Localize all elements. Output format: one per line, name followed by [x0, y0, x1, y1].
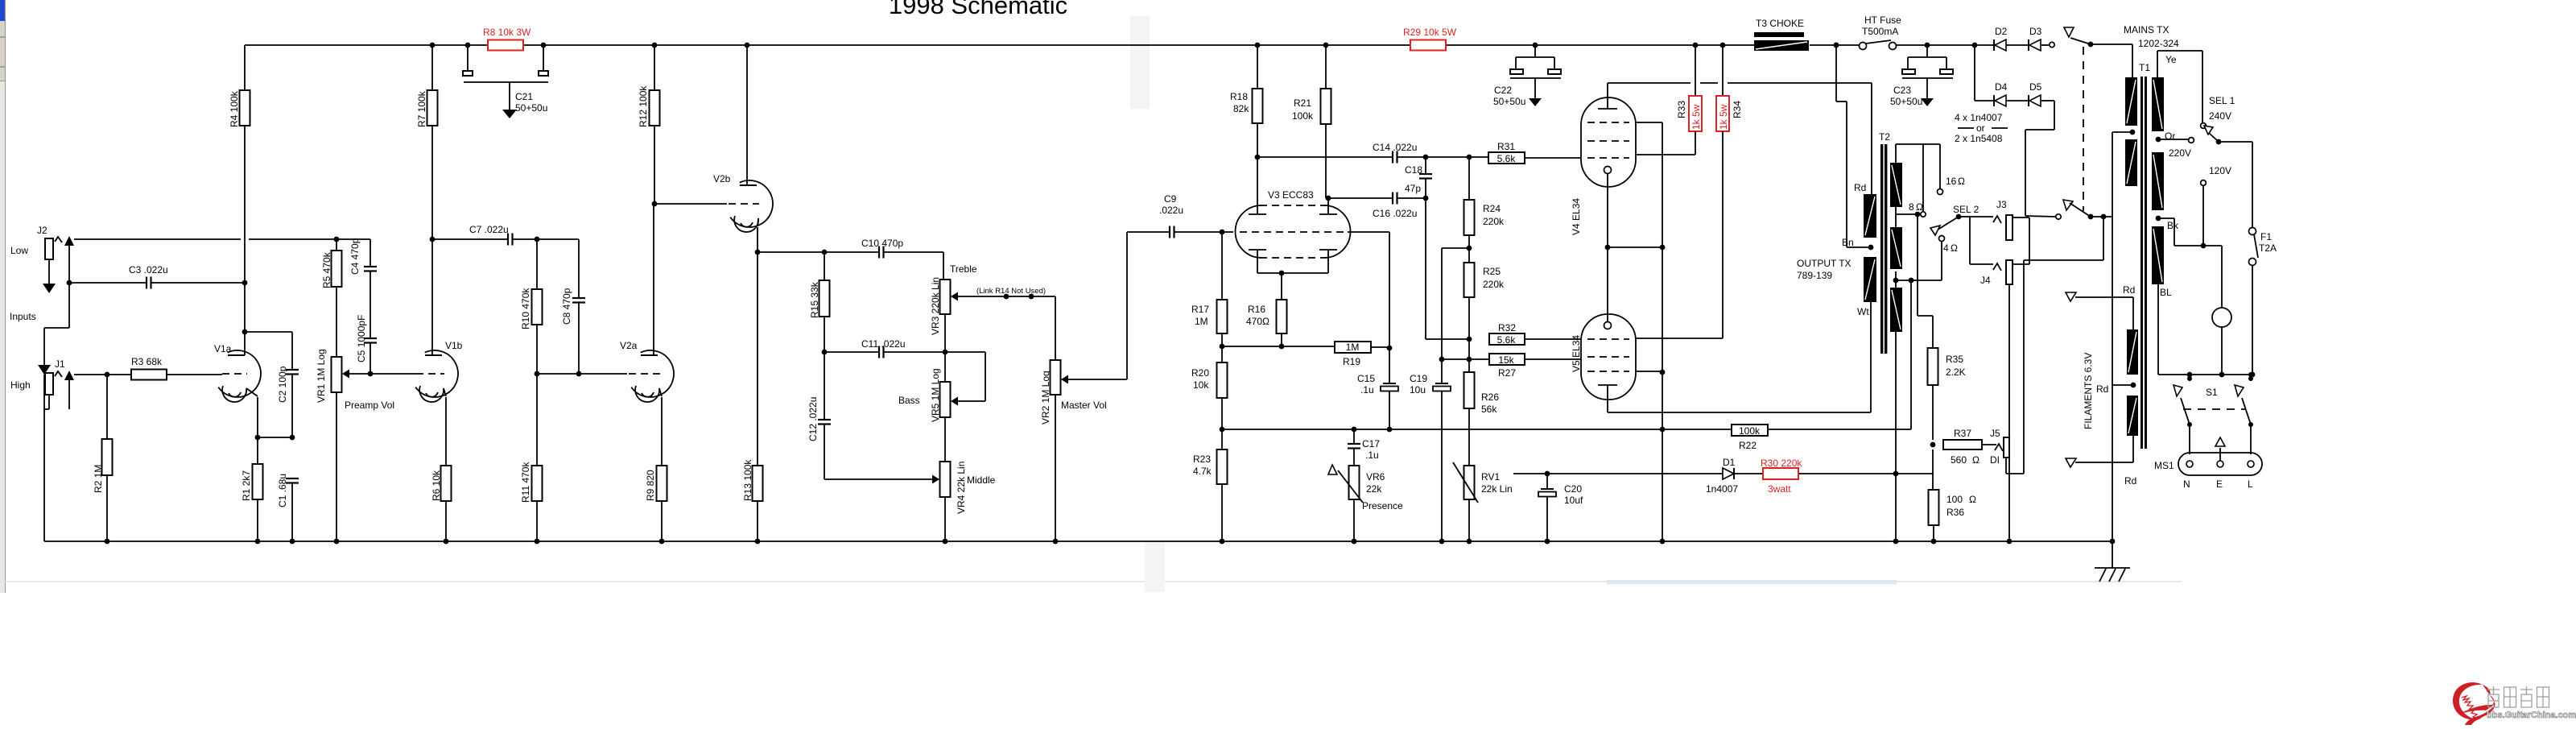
svg-text:C10 470p: C10 470p — [861, 238, 903, 249]
svg-text:V2a: V2a — [620, 340, 638, 351]
svg-text:FILAMENTS 6.3V: FILAMENTS 6.3V — [2083, 353, 2094, 429]
svg-text:C14 .022u: C14 .022u — [1373, 142, 1417, 153]
svg-text:R37: R37 — [1954, 428, 1971, 439]
svg-text:R34: R34 — [1732, 101, 1743, 118]
svg-text:VR2 1M Log: VR2 1M Log — [1040, 371, 1051, 425]
svg-text:Rd: Rd — [1854, 182, 1866, 193]
svg-text:1n4007: 1n4007 — [1706, 483, 1738, 495]
svg-text:C22: C22 — [1494, 85, 1512, 96]
svg-text:HT Fuse: HT Fuse — [1864, 14, 1901, 26]
svg-text:1k 5w: 1k 5w — [1718, 104, 1729, 130]
svg-text:D4: D4 — [1995, 81, 2008, 93]
svg-text:R25: R25 — [1483, 266, 1501, 277]
svg-text:F1: F1 — [2260, 231, 2272, 242]
svg-text:1202-324: 1202-324 — [2138, 38, 2179, 49]
svg-text:50+50u: 50+50u — [1493, 96, 1525, 107]
svg-text:560: 560 — [1951, 454, 1967, 466]
svg-text:47p: 47p — [1405, 183, 1421, 194]
svg-text:3watt: 3watt — [1768, 483, 1791, 495]
svg-text:R30 220k: R30 220k — [1761, 458, 1802, 469]
svg-text:VR3 220k Lin: VR3 220k Lin — [930, 277, 941, 335]
svg-text:R2 1M: R2 1M — [93, 465, 104, 493]
svg-text:Ye: Ye — [2165, 54, 2177, 65]
svg-text:22k: 22k — [1366, 483, 1382, 495]
svg-text:R26: R26 — [1481, 391, 1499, 403]
svg-text:SEL 1: SEL 1 — [2209, 95, 2235, 106]
svg-text:R16: R16 — [1248, 304, 1265, 315]
svg-text:J4: J4 — [1980, 275, 1991, 286]
svg-text:R13 100k: R13 100k — [742, 459, 753, 501]
svg-text:240V: 240V — [2209, 110, 2231, 122]
svg-text:C21: C21 — [515, 91, 533, 102]
svg-text:bbs.GuitarChina.com: bbs.GuitarChina.com — [2487, 710, 2576, 720]
svg-text:(Link R14 Not Used): (Link R14 Not Used) — [976, 287, 1046, 296]
svg-text:R22: R22 — [1739, 440, 1757, 451]
svg-text:4: 4 — [1943, 242, 1949, 254]
svg-text:R7 100k: R7 100k — [416, 90, 427, 127]
svg-text:RV1: RV1 — [1481, 471, 1500, 483]
svg-text:.1u: .1u — [1365, 449, 1379, 461]
svg-text:R4 100k: R4 100k — [229, 90, 240, 127]
svg-text:D2: D2 — [1995, 26, 2008, 37]
svg-text:Bk: Bk — [2167, 220, 2179, 231]
svg-text:E: E — [2216, 478, 2223, 490]
svg-text:R5 470k: R5 470k — [321, 251, 332, 288]
svg-text:Ω: Ω — [1969, 494, 1976, 505]
svg-text:R10 470k: R10 470k — [520, 288, 531, 329]
svg-text:Wt: Wt — [1857, 306, 1869, 317]
svg-text:R20: R20 — [1191, 367, 1209, 379]
svg-text:T2A: T2A — [2259, 242, 2277, 254]
svg-text:220k: 220k — [1483, 216, 1505, 227]
svg-text:VR5 1M Log: VR5 1M Log — [930, 368, 941, 422]
svg-text:C3 .022u: C3 .022u — [129, 264, 168, 275]
svg-text:100: 100 — [1946, 494, 1963, 505]
svg-text:15k: 15k — [1498, 354, 1514, 366]
svg-text:T500mA: T500mA — [1862, 26, 1898, 37]
svg-text:R27: R27 — [1498, 367, 1516, 379]
svg-text:220k: 220k — [1483, 279, 1505, 290]
svg-text:SEL 2: SEL 2 — [1953, 204, 1979, 215]
svg-text:Bn: Bn — [1842, 237, 1854, 248]
svg-text:DI: DI — [1990, 454, 2000, 466]
svg-text:R19: R19 — [1343, 356, 1360, 367]
svg-text:V2b: V2b — [713, 173, 731, 184]
svg-text:22k Lin: 22k Lin — [1481, 483, 1513, 495]
svg-text:C11 .022u: C11 .022u — [861, 338, 906, 350]
svg-text:C18: C18 — [1405, 164, 1422, 176]
svg-text:R21: R21 — [1294, 97, 1311, 109]
svg-text:R15 33k: R15 33k — [809, 281, 820, 318]
svg-text:R1 2k7: R1 2k7 — [241, 470, 252, 501]
svg-text:5.6k: 5.6k — [1497, 334, 1517, 346]
svg-text:Preamp Vol: Preamp Vol — [345, 400, 394, 411]
svg-text:120V: 120V — [2209, 165, 2231, 176]
svg-text:V1b: V1b — [445, 340, 463, 351]
svg-text:S1: S1 — [2206, 387, 2218, 398]
svg-text:1998 Schematic: 1998 Schematic — [889, 0, 1067, 19]
svg-text:82k: 82k — [1233, 103, 1249, 114]
svg-text:D3: D3 — [2029, 26, 2042, 37]
svg-text:J1: J1 — [55, 358, 65, 370]
svg-text:Treble: Treble — [950, 263, 977, 275]
svg-text:J3: J3 — [1996, 199, 2007, 210]
svg-text:1M: 1M — [1195, 316, 1208, 327]
svg-text:V4 EL34: V4 EL34 — [1571, 198, 1582, 235]
svg-text:C19: C19 — [1410, 373, 1427, 384]
svg-text:C1 .68u: C1 .68u — [277, 474, 288, 507]
svg-text:T2: T2 — [1879, 131, 1890, 143]
svg-text:V3 ECC83: V3 ECC83 — [1268, 189, 1314, 201]
svg-text:T3 CHOKE: T3 CHOKE — [1756, 18, 1804, 29]
svg-text:R24: R24 — [1483, 203, 1501, 214]
svg-text:R31: R31 — [1497, 141, 1515, 152]
svg-text:OUTPUT TX: OUTPUT TX — [1797, 258, 1851, 269]
svg-text:5.6k: 5.6k — [1497, 153, 1517, 164]
svg-text:R36: R36 — [1946, 507, 1964, 518]
svg-text:Rd: Rd — [2124, 475, 2136, 487]
svg-text:4 x 1n4007: 4 x 1n4007 — [1955, 112, 2003, 123]
svg-text:C23: C23 — [1893, 85, 1911, 96]
svg-text:C9: C9 — [1164, 193, 1177, 205]
svg-text:R18: R18 — [1230, 91, 1248, 102]
svg-text:MS1: MS1 — [2154, 460, 2174, 471]
svg-text:Middle: Middle — [967, 474, 996, 486]
svg-text:L: L — [2248, 478, 2253, 490]
svg-text:4.7k: 4.7k — [1193, 466, 1212, 477]
svg-text:R17: R17 — [1191, 304, 1209, 315]
svg-text:Presence: Presence — [1362, 500, 1403, 512]
svg-text:100k: 100k — [1739, 425, 1761, 437]
svg-text:789-139: 789-139 — [1797, 270, 1832, 281]
svg-text:Rd: Rd — [2096, 383, 2108, 395]
svg-text:V1a: V1a — [214, 343, 232, 354]
svg-text:R23: R23 — [1193, 454, 1211, 465]
svg-text:VR6: VR6 — [1366, 471, 1385, 483]
svg-text:V5 EL34: V5 EL34 — [1571, 335, 1582, 372]
svg-text:16: 16 — [1946, 176, 1957, 187]
svg-text:or: or — [1976, 122, 1985, 134]
svg-text:8: 8 — [1909, 201, 1914, 213]
svg-text:Rd: Rd — [2123, 284, 2135, 296]
svg-text:2.2K: 2.2K — [1946, 367, 1966, 378]
svg-text:Ω: Ω — [1958, 176, 1965, 187]
svg-text:VR4 22k Lin: VR4 22k Lin — [956, 462, 967, 514]
svg-text:N: N — [2183, 478, 2190, 490]
svg-text:C4 470p: C4 470p — [349, 238, 361, 275]
svg-text:Bass: Bass — [898, 395, 920, 406]
svg-text:C5 1000pF: C5 1000pF — [356, 315, 367, 362]
svg-text:J5: J5 — [1990, 428, 2000, 439]
svg-text:C7 .022u: C7 .022u — [469, 224, 509, 235]
svg-text:R9 820: R9 820 — [645, 470, 656, 501]
svg-text:Inputs: Inputs — [10, 311, 36, 322]
svg-text:R11 470k: R11 470k — [520, 462, 531, 503]
svg-text:Master Vol: Master Vol — [1061, 400, 1107, 411]
svg-text:MAINS TX: MAINS TX — [2124, 24, 2169, 35]
svg-text:2 x 1n5408: 2 x 1n5408 — [1955, 133, 2003, 144]
svg-text:High: High — [10, 379, 31, 391]
svg-text:C12 .022u: C12 .022u — [807, 397, 819, 441]
svg-text:Ω: Ω — [1916, 201, 1923, 213]
svg-text:1k 5w: 1k 5w — [1690, 104, 1702, 130]
svg-text:BL: BL — [2160, 287, 2172, 298]
svg-text:10u: 10u — [1410, 384, 1426, 396]
svg-text:C2 100p: C2 100p — [277, 366, 288, 403]
svg-text:Low: Low — [10, 245, 28, 256]
svg-text:R29 10k 5W: R29 10k 5W — [1403, 27, 1457, 38]
svg-text:10uf: 10uf — [1564, 495, 1583, 506]
svg-text:D1: D1 — [1723, 457, 1736, 468]
svg-text:50+50u: 50+50u — [1890, 96, 1922, 107]
svg-text:56k: 56k — [1481, 404, 1497, 415]
svg-text:VR1 1M Log: VR1 1M Log — [316, 349, 327, 403]
svg-text:R8 10k 3W: R8 10k 3W — [483, 27, 531, 38]
svg-text:R35: R35 — [1946, 354, 1963, 365]
svg-text:50+50u: 50+50u — [515, 102, 547, 114]
svg-text:T1: T1 — [2139, 62, 2150, 73]
svg-text:R12 100k: R12 100k — [638, 85, 649, 127]
svg-text:C8 470p: C8 470p — [561, 288, 572, 325]
svg-text:Ω: Ω — [1972, 454, 1979, 466]
svg-text:C16 .022u: C16 .022u — [1373, 208, 1417, 219]
svg-text:470Ω: 470Ω — [1246, 316, 1269, 327]
svg-text:D5: D5 — [2029, 81, 2042, 93]
svg-text:100k: 100k — [1292, 110, 1314, 122]
svg-text:R6 10k: R6 10k — [431, 470, 442, 501]
svg-text:220V: 220V — [2169, 147, 2191, 159]
svg-text:C20: C20 — [1564, 483, 1582, 495]
svg-text:C15: C15 — [1357, 373, 1375, 384]
svg-text:J2: J2 — [37, 225, 47, 236]
svg-text:R32: R32 — [1498, 322, 1516, 333]
svg-text:Ω: Ω — [1951, 242, 1958, 254]
svg-text:.1u: .1u — [1360, 384, 1374, 396]
svg-text:C17: C17 — [1362, 438, 1380, 449]
svg-text:10k: 10k — [1193, 379, 1209, 391]
svg-text:1M: 1M — [1346, 342, 1360, 353]
svg-text:R33: R33 — [1676, 101, 1687, 118]
svg-text:.022u: .022u — [1159, 205, 1183, 216]
svg-text:R3 68k: R3 68k — [131, 356, 163, 367]
